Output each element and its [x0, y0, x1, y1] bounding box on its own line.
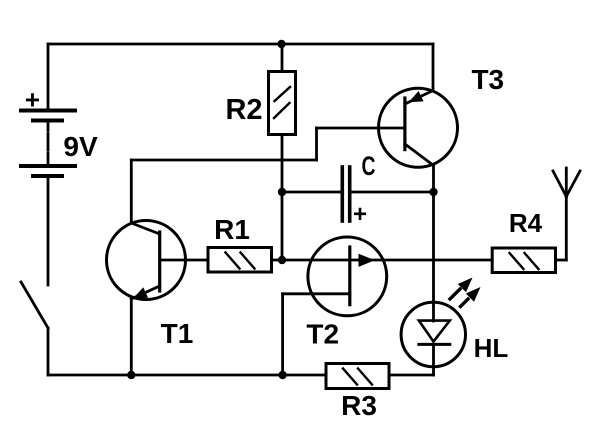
svg-text:9V: 9V — [63, 131, 98, 162]
wire top rail — [48, 43, 433, 46]
node T1 emitter junction — [127, 371, 135, 379]
wire to T3 base — [317, 127, 405, 130]
transistor T3 — [379, 88, 458, 167]
resistor R2 — [269, 72, 296, 135]
wire T3 emitter to top rail — [432, 44, 435, 91]
node T2 source junction — [278, 371, 286, 379]
node C right junction — [429, 188, 437, 196]
svg-text:R1: R1 — [214, 214, 250, 245]
node C left junction — [278, 188, 286, 196]
wire switch to bottom rail — [47, 328, 50, 375]
LED HL — [401, 278, 480, 376]
switch S1 blade — [21, 282, 48, 328]
svg-text:R3: R3 — [341, 390, 377, 421]
wire R4 to antenna — [556, 259, 567, 262]
resistor R3 — [326, 364, 389, 389]
wire R1 to node — [272, 259, 283, 262]
battery GB1 9V — [21, 111, 75, 177]
svg-text:R2: R2 — [225, 94, 262, 126]
svg-text:+: + — [25, 85, 40, 115]
wire R2 top — [281, 44, 284, 72]
wire R2 bottom down to node — [281, 135, 284, 261]
node R1 T2 junction — [278, 256, 286, 264]
wire T2 gate line / output — [282, 259, 492, 262]
capacitor C — [282, 167, 434, 221]
wire riser to T3 base — [315, 128, 318, 160]
resistor R4 — [492, 248, 555, 273]
wire battery bottom lead — [47, 176, 50, 285]
wire T1 collector up — [130, 160, 133, 223]
antenna W1 — [553, 168, 580, 197]
transistor T1 — [107, 221, 209, 300]
resistor R1 — [208, 248, 272, 273]
LED arrows — [450, 289, 460, 299]
svg-text:T2: T2 — [306, 319, 339, 350]
svg-text:HL: HL — [474, 333, 509, 363]
node R2 top junction — [277, 40, 285, 48]
wire bottom rail — [48, 374, 326, 377]
wire T2 source down — [281, 294, 284, 375]
wire battery top lead — [47, 44, 50, 110]
wire LED bottom to R3 — [389, 374, 434, 377]
svg-text:R4: R4 — [509, 208, 543, 238]
wire C node down to LED — [432, 192, 435, 321]
wire T1 emitter down — [130, 299, 133, 375]
transistor T2 — [283, 237, 387, 316]
wire T1 collector to T3 base horizontal — [131, 159, 316, 162]
svg-text:T3: T3 — [471, 64, 504, 95]
svg-text:T1: T1 — [161, 318, 194, 349]
wire T3 collector down to C node — [432, 165, 435, 192]
svg-text:+: + — [353, 201, 367, 228]
svg-text:C: C — [362, 151, 376, 181]
